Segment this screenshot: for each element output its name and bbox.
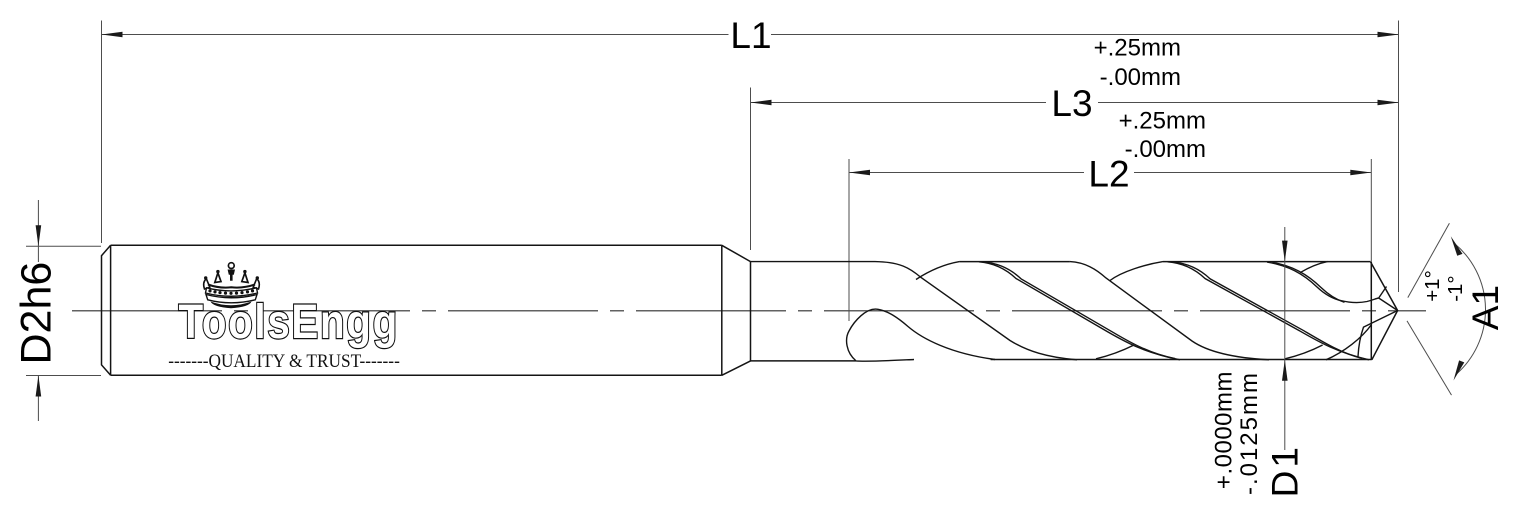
extension line left (shank left edge, L1) — [101, 21, 103, 244]
crest arc 1 — [916, 262, 960, 280]
arrow L1 right — [1378, 32, 1399, 38]
crest arc 2 — [1110, 262, 1163, 281]
crown center finial — [228, 263, 234, 269]
D1 dimension line top — [1284, 227, 1286, 450]
arrow L3 right — [1378, 100, 1399, 106]
margin pair 2a — [1168, 262, 1370, 360]
D2h6 extension bottom — [26, 375, 101, 377]
svg-text:-.00mm: -.00mm — [1125, 136, 1206, 163]
arrow D1 bottom — [1282, 360, 1288, 381]
extension line right (drill tip, L1/L3) — [1398, 21, 1400, 293]
top envelope segment 2 — [960, 261, 1070, 263]
crown cap swags — [208, 285, 255, 288]
point lip upper wavy — [1341, 287, 1398, 311]
svg-text:A1: A1 — [1465, 285, 1506, 330]
angle line A1 upper — [1408, 223, 1450, 297]
neck bottom line — [751, 360, 857, 362]
crown beaded band — [206, 288, 258, 296]
crown middle spikes — [215, 273, 221, 283]
anti-crest arc 2 — [1285, 345, 1323, 359]
extension line flute start (L2) — [848, 159, 850, 321]
anti-crest arc 1 — [1096, 345, 1134, 359]
centerline — [72, 310, 1426, 312]
extension line flute end (L2) — [1370, 159, 1372, 262]
angle arc A1 — [1455, 244, 1486, 375]
arrow D2h6 bottom — [36, 376, 42, 397]
svg-text:-.00mm: -.00mm — [1100, 64, 1181, 91]
margin pair 2b — [1173, 262, 1362, 358]
arrow A1 arc bottom — [1454, 360, 1465, 380]
svg-text:L2: L2 — [1088, 154, 1129, 195]
arrow A1 arc top — [1451, 236, 1463, 256]
crown outer horns — [204, 279, 210, 289]
svg-text:-------QUALITY & TRUST-------: -------QUALITY & TRUST------- — [168, 350, 400, 371]
svg-text:-.0125mm: -.0125mm — [1236, 371, 1263, 495]
margin pair 3a to tip — [1267, 262, 1341, 301]
shank outline — [102, 245, 722, 375]
arrow D2h6 top — [36, 225, 42, 246]
crown base crescent — [211, 302, 252, 309]
heel arc — [1326, 325, 1372, 360]
D2h6 dimension line — [37, 200, 39, 421]
svg-text:+.0000mm: +.0000mm — [1211, 371, 1238, 489]
crest arc 3 — [1300, 262, 1328, 273]
margin pair 1a — [979, 262, 1180, 360]
svg-text:L1: L1 — [730, 15, 771, 56]
margin pair 3b — [1272, 262, 1344, 302]
svg-text:-1°: -1° — [1444, 275, 1467, 301]
svg-text:D1: D1 — [1265, 444, 1306, 497]
extension line neck start (L3) — [750, 88, 752, 251]
D2h6 extension top — [26, 245, 101, 247]
dimension line L2 — [849, 172, 1371, 174]
arrow L2 left — [849, 170, 870, 176]
svg-text:ToolsEngg: ToolsEngg — [179, 296, 399, 349]
arrow L1 left — [102, 32, 123, 38]
point lip lower — [1358, 311, 1398, 357]
arrow D1 top — [1282, 241, 1288, 262]
margin pair 1b — [984, 262, 1175, 359]
flute curve S2 — [1070, 262, 1269, 360]
dimension line L3 — [751, 102, 1399, 104]
svg-text:+.25mm: +.25mm — [1119, 107, 1206, 134]
drill point cone — [1371, 262, 1398, 360]
flute runout lobe — [847, 309, 995, 361]
neck taper — [722, 245, 751, 375]
dimension line L1 — [102, 34, 1399, 36]
neck top line into first flute curve — [751, 262, 1078, 360]
svg-text:D2h6: D2h6 — [13, 262, 61, 365]
logo crown — [204, 263, 260, 309]
top envelope segment 3 — [1163, 261, 1371, 263]
svg-text:+.25mm: +.25mm — [1094, 35, 1181, 62]
svg-text:+1°: +1° — [1421, 270, 1444, 302]
svg-text:L3: L3 — [1051, 83, 1092, 124]
angle line A1 lower — [1407, 321, 1452, 395]
arrow L3 left — [751, 100, 772, 106]
bottom envelope — [991, 359, 1372, 361]
arrow L2 right — [1350, 170, 1371, 176]
neck junction line — [750, 262, 752, 361]
crown lower band — [206, 295, 257, 303]
